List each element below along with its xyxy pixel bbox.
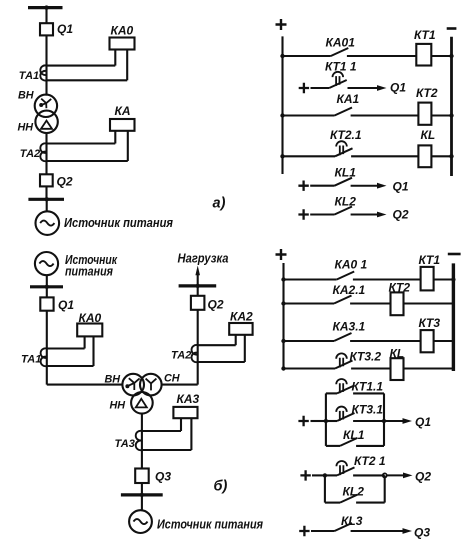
node R2	[383, 473, 387, 477]
svg-text:КТ2.1: КТ2.1	[330, 128, 362, 142]
svg-text:КL2: КL2	[335, 195, 357, 209]
label KA	[115, 104, 131, 118]
svg-text:КТ1: КТ1	[414, 28, 436, 42]
breaker Q2	[40, 174, 53, 186]
label KA01 B	[335, 258, 368, 272]
plus row2	[299, 83, 309, 93]
label KL2	[335, 195, 357, 209]
KA pin 2	[127, 131, 129, 161]
wire KL to right rail	[431, 154, 453, 158]
wire b-row3 right	[350, 340, 421, 342]
label a)	[213, 196, 226, 212]
wire TA3 to KA3 lower	[142, 449, 192, 451]
transformer T2 winding SN	[140, 374, 162, 396]
wire row1 left	[280, 54, 331, 58]
label KL B	[390, 347, 405, 361]
svg-text:Q1: Q1	[390, 81, 406, 95]
wire TA3 to KA3 upper	[142, 430, 181, 432]
plus row6	[298, 209, 308, 219]
label load	[178, 252, 229, 266]
arrow row5 to Q1	[351, 183, 387, 189]
wire busbar to source G3	[141, 495, 143, 511]
label Q1 row2	[390, 81, 406, 95]
KA0 B pin 2	[92, 336, 94, 366]
label KA01	[326, 36, 356, 50]
source G3	[129, 510, 152, 533]
svg-text:Q1: Q1	[57, 22, 73, 36]
time-delay symbol KT3.2	[336, 353, 347, 367]
coil KT2 B	[391, 292, 404, 315]
wire row3 right	[351, 114, 419, 116]
CT TA1 B	[41, 348, 47, 366]
label KA3	[177, 392, 200, 406]
label NN winding	[18, 122, 34, 134]
relay KA	[110, 119, 135, 131]
svg-text:Q1: Q1	[58, 298, 74, 312]
wire busbar to Q1	[45, 8, 47, 24]
arrow row2 to Q1	[348, 85, 387, 91]
coil KT1 B	[421, 267, 434, 291]
contact KL3	[335, 523, 353, 531]
wire row4 right	[351, 155, 418, 157]
svg-text:ТА2: ТА2	[171, 350, 191, 362]
svg-text:КТ2 1: КТ2 1	[354, 454, 386, 468]
svg-text:КТ1.1: КТ1.1	[352, 380, 384, 394]
group2 bottom branch	[325, 475, 385, 502]
label Q3	[155, 470, 171, 484]
svg-text:КА1: КА1	[337, 92, 360, 106]
svg-text:КТ1 1: КТ1 1	[325, 60, 357, 74]
svg-text:КТ3: КТ3	[419, 316, 441, 330]
left rail B	[282, 263, 284, 369]
wire TA3 to Q3	[141, 450, 143, 469]
label NN B	[110, 400, 126, 412]
label TA2	[20, 148, 40, 160]
coil KL	[418, 145, 431, 167]
svg-text:а): а)	[213, 196, 226, 212]
svg-text:ТА3: ТА3	[115, 438, 135, 450]
coil KT1	[416, 44, 431, 66]
KA0 pin 1	[114, 50, 116, 66]
arrow group2 to Q2	[387, 473, 413, 479]
time-delay symbol KT1.1	[333, 72, 344, 86]
contact KA0.1 B	[337, 272, 355, 280]
plus rail A terminal	[276, 19, 287, 30]
wire Q2 to busbar	[45, 186, 47, 199]
wire row3 left	[280, 113, 334, 117]
contact KA2.1	[334, 296, 352, 304]
svg-text:КL1: КL1	[335, 166, 357, 180]
source G2	[35, 252, 58, 275]
plus group2	[300, 470, 310, 480]
label Q3 row	[414, 526, 430, 539]
wire Q3 to busbar	[141, 483, 143, 495]
label Q2	[57, 175, 73, 189]
delta symbol B	[136, 399, 147, 408]
label Q1 B	[58, 298, 74, 312]
busbar B bottom	[121, 493, 163, 497]
wire b-row4 mid	[351, 367, 390, 369]
label KL1 B	[343, 428, 365, 442]
KA3 pin 1	[180, 418, 182, 431]
wire row2 left	[311, 87, 330, 89]
label KT2 B	[389, 281, 411, 295]
svg-text:ТА2: ТА2	[20, 148, 40, 160]
coil KT3	[421, 330, 434, 352]
svg-text:питания: питания	[65, 264, 113, 279]
contact KA3.1	[334, 333, 352, 341]
label Q2 B	[208, 298, 224, 312]
wire TA1 to KA0 lower	[47, 79, 128, 81]
svg-text:КА0 1: КА0 1	[335, 258, 368, 272]
KA3 pin 2	[190, 418, 192, 450]
left rail A	[281, 36, 283, 174]
node L2	[323, 473, 327, 477]
star symbol VN with dot	[125, 378, 139, 390]
transformer T winding VN	[35, 95, 57, 117]
svg-text:ТА1: ТА1	[21, 354, 41, 366]
node L1	[324, 419, 328, 423]
svg-text:Нагрузка: Нагрузка	[178, 252, 229, 266]
contact KT1.1	[329, 80, 347, 88]
label TA3	[115, 438, 135, 450]
label source B line2	[65, 264, 113, 279]
label Q2 group	[415, 470, 431, 484]
coil KL B	[391, 358, 404, 380]
relay KA0 B	[77, 324, 102, 337]
wire TA2 to KA2 lower	[198, 361, 245, 363]
svg-text:КТ1: КТ1	[419, 253, 441, 267]
relay KA2	[229, 323, 252, 335]
group2 top branch	[325, 461, 385, 475]
svg-text:Q2: Q2	[415, 470, 431, 484]
wire TA1 to KA0 upper	[47, 65, 116, 67]
svg-text:КА01: КА01	[326, 36, 356, 50]
delta symbol	[41, 121, 52, 129]
plus group1	[298, 416, 308, 426]
label VN B	[105, 374, 121, 386]
busbar A top	[28, 5, 63, 9]
svg-text:ВН: ВН	[18, 90, 34, 102]
wire b-row3 left	[281, 339, 334, 343]
transformer T2 winding VN	[122, 374, 144, 396]
label KA2	[230, 310, 253, 324]
svg-text:Q1: Q1	[393, 180, 409, 194]
node R1	[382, 419, 386, 423]
transformer T winding NN	[35, 111, 57, 133]
wire TA2 to KA2 upper	[198, 344, 236, 346]
right rail B	[452, 263, 455, 371]
label TA1 B	[21, 354, 41, 366]
contact KA1.1	[335, 108, 353, 116]
coil KT2	[418, 103, 431, 125]
svg-text:б): б)	[214, 479, 228, 495]
load arrow	[195, 266, 200, 286]
svg-text:ВН: ВН	[105, 374, 121, 386]
relay KA3	[173, 407, 197, 418]
label KT2.1	[330, 128, 362, 142]
CT TA3	[136, 431, 142, 450]
time-delay symbol KT2.1	[336, 141, 347, 155]
wire b-row2 left	[281, 301, 334, 305]
svg-text:КТ3.1: КТ3.1	[352, 403, 384, 417]
wire row4 left	[280, 154, 335, 158]
svg-text:КА3: КА3	[177, 392, 200, 406]
right rail A	[450, 37, 453, 176]
label KA2.1	[333, 283, 366, 297]
label Q1 row5	[393, 180, 409, 194]
label Q1 group	[415, 415, 431, 429]
wire KT1 to right rail	[431, 54, 453, 58]
plus rail B terminal	[276, 249, 287, 260]
wire b-row1 right	[353, 278, 421, 280]
arrow row6 to Q2	[351, 212, 387, 218]
busbar A bottom	[28, 197, 64, 201]
breaker Q2 B	[191, 296, 205, 310]
wire KL to rail B	[404, 367, 454, 369]
minus terminal B	[448, 253, 461, 256]
KA pin 1	[114, 131, 116, 144]
group1 bottom branch	[326, 421, 384, 446]
svg-text:Q3: Q3	[155, 470, 171, 484]
wire TA1 to KA0 lower B	[47, 365, 94, 367]
svg-text:КL: КL	[421, 128, 436, 142]
label Q2 row6	[393, 208, 409, 222]
minus terminal A	[447, 27, 457, 30]
label KT21	[354, 454, 386, 468]
contact KL1	[335, 178, 353, 186]
KA2 pin 1	[235, 335, 237, 345]
group1 top branch	[326, 379, 384, 421]
wire b-row2 mid	[350, 302, 390, 304]
svg-text:Q2: Q2	[57, 175, 73, 189]
svg-text:КА0: КА0	[111, 24, 134, 38]
wire busbar to Q1 B	[46, 287, 48, 298]
label KL1	[335, 166, 357, 180]
svg-text:КТ2: КТ2	[416, 86, 438, 100]
arrow group1 to Q1	[384, 418, 412, 424]
wire b-row1 left	[281, 277, 336, 281]
arrow to Q3	[351, 528, 412, 534]
breaker Q1	[40, 23, 53, 35]
svg-text:КА: КА	[115, 104, 131, 118]
label KT1 B	[419, 253, 441, 267]
label Q1	[57, 22, 73, 36]
contact KT3.2 blade	[335, 361, 353, 369]
KA2 pin 2	[244, 335, 246, 362]
label KL2 B	[343, 485, 365, 499]
svg-text:Q2: Q2	[208, 298, 224, 312]
wire transformer to Q2	[45, 133, 47, 174]
wire NN to TA3	[141, 414, 143, 450]
svg-text:ТА1: ТА1	[19, 70, 39, 82]
label KA3.1	[333, 320, 366, 334]
wire row5 left	[310, 185, 334, 187]
wire busbar to Q2 B	[197, 286, 199, 296]
wire Q2 to corner B	[197, 310, 199, 385]
svg-text:Q3: Q3	[414, 526, 430, 539]
contact KA0.1	[331, 48, 349, 56]
wire busbar to source G1	[46, 199, 48, 211]
wire TA2 to KA lower	[47, 160, 128, 162]
wire TA1 to KA0 upper B	[47, 347, 85, 349]
wire KT2 to rail B	[404, 302, 454, 304]
star symbol with neutral dot	[39, 99, 51, 109]
svg-text:Q2: Q2	[393, 208, 409, 222]
wire KT2 to right rail	[431, 113, 453, 117]
label KT3	[419, 316, 441, 330]
svg-text:КА2: КА2	[230, 310, 253, 324]
wire source to busbar B	[46, 275, 48, 287]
wire TA2 to KA upper	[47, 142, 116, 144]
KA0 pin 2	[126, 50, 128, 81]
wire b-row4 left	[281, 366, 335, 370]
label KL	[421, 128, 436, 142]
breaker Q3	[135, 469, 149, 484]
wire corner to VN	[47, 384, 123, 386]
label TA2 B	[171, 350, 191, 362]
label source G3	[157, 517, 263, 532]
label KT2	[416, 86, 438, 100]
wire plus to node L1	[311, 420, 326, 422]
source G1	[36, 211, 60, 235]
wire plus to node L2	[312, 474, 325, 476]
CT TA1	[40, 65, 46, 80]
label KT1	[414, 28, 436, 42]
svg-text:НН: НН	[110, 400, 126, 412]
plus row Q3	[299, 526, 309, 536]
star symbol SN	[146, 379, 157, 391]
label KA0 B	[79, 311, 102, 325]
busbar B left	[30, 285, 63, 289]
wire row6 left	[310, 213, 334, 215]
wire q3 left	[311, 530, 335, 532]
wire SN to right branch	[162, 384, 198, 386]
wire Q1 to transformer	[45, 35, 47, 95]
label KT1.1	[352, 380, 384, 394]
plus row5	[298, 181, 308, 191]
svg-text:Источник питания: Источник питания	[64, 215, 173, 230]
svg-text:КТ3.2: КТ3.2	[350, 350, 382, 364]
wire KT1 to rail B	[434, 277, 456, 281]
svg-text:СН: СН	[164, 373, 180, 385]
label TA1	[19, 70, 39, 82]
contact KT2.1 blade	[335, 148, 353, 156]
svg-text:Q1: Q1	[415, 415, 431, 429]
contact KL2	[335, 207, 353, 215]
label KT11	[325, 60, 357, 74]
wire Q1 to corner B	[46, 311, 48, 385]
label source A	[64, 215, 173, 230]
label KT3.2	[350, 350, 382, 364]
svg-text:Источник питания: Источник питания	[157, 517, 263, 532]
CT TA2 B	[192, 345, 198, 362]
svg-text:НН: НН	[18, 122, 34, 134]
label b)	[214, 479, 228, 495]
svg-text:КА3.1: КА3.1	[333, 320, 366, 334]
transformer T2 winding NN	[131, 392, 153, 414]
wire row1 right	[347, 55, 416, 57]
label VN winding	[18, 90, 34, 102]
relay KA0	[110, 38, 135, 50]
wire KT3 to rail B	[434, 340, 454, 342]
label KA0	[111, 24, 134, 38]
label KL3	[341, 514, 363, 528]
CT TA2	[40, 143, 46, 161]
busbar B right	[179, 284, 217, 288]
svg-text:КА2.1: КА2.1	[333, 283, 366, 297]
label KA1	[337, 92, 360, 106]
KA0 B pin 1	[84, 336, 86, 348]
breaker Q1 B	[40, 297, 53, 310]
group1 middle branch	[326, 407, 384, 421]
label SN B	[164, 373, 180, 385]
label KT3.1	[352, 403, 384, 417]
label source B line1	[65, 252, 117, 267]
